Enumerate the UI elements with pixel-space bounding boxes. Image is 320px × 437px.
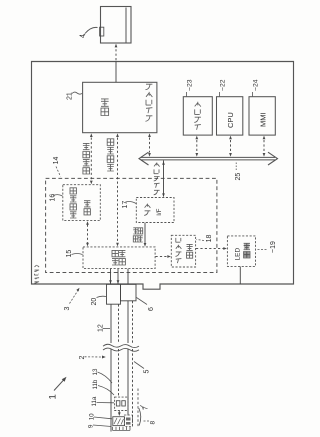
cable line 4 lower [132,349,134,426]
cable line 2 lower [118,349,120,397]
dashed line box21-box15 [117,138,119,243]
svg-text:LED: LED [235,248,242,261]
box 19 LED drive [227,236,255,267]
svg-text:7: 7 [143,406,150,410]
tip box A [113,417,125,426]
svg-text:~24: ~24 [253,79,260,91]
leader 3 [70,290,79,304]
leader 22 [219,92,221,96]
arrow line label 1 [54,379,65,391]
box 17 slave IF [136,198,174,223]
cable line 3 upper [127,301,129,343]
svg-text:I/F: I/F [156,208,163,215]
dashed line bus to table [196,140,198,153]
line outer box to box21 [115,62,117,83]
svg-text:25: 25 [235,173,242,181]
leader 6 [137,298,148,305]
svg-text:CPU: CPU [226,112,235,128]
leader 25 [235,163,237,171]
svg-text:12: 12 [98,324,105,332]
bus line lower [141,159,275,161]
svg-text:3: 3 [64,307,71,311]
box15 text line1 [112,250,118,265]
LED housing box [115,397,128,410]
arrow up into display [115,44,118,48]
tip contact teeth [113,427,131,431]
leader label 21 [72,92,82,94]
svg-text:~22: ~22 [220,79,227,91]
leader 19 [256,249,267,251]
bracket at tip [139,408,141,426]
leader 24 [252,92,254,96]
outer processor box [32,62,294,290]
svg-text:18: 18 [206,235,213,243]
bus right open arrow [268,152,278,165]
cable line 4 upper [132,301,134,343]
bus left open arrow [139,152,149,165]
dashed line bus to CPU [230,140,232,153]
box18 text line2 [187,244,193,258]
connector box 6 [121,284,137,301]
box15 text line2 [119,250,125,265]
line LED box down [118,411,120,415]
svg-text:11a: 11a [91,396,98,406]
leader 17 [126,202,137,204]
svg-text:20: 20 [91,298,98,306]
leader 11b [98,386,114,396]
dashed line box16-box15 [87,225,89,244]
leader 12 [103,328,110,330]
processor label text (vertical) [34,265,39,283]
dashed line bus to MMI [263,140,265,153]
signal text eizo-shingo [107,139,114,171]
box 16 control process [63,185,101,221]
display inner screen line [125,8,127,43]
svg-text:~19: ~19 [270,241,277,253]
box 21 image processor [83,82,157,132]
leader 23 [186,92,188,96]
probe outline dashed right [137,389,139,428]
dashed line display to processor box [115,45,117,62]
dashed line box15-box18 [156,256,168,258]
leader for label 4 [85,27,98,33]
leader 2 [85,356,103,358]
box18 text line1 decoder [176,238,182,263]
svg-text:8: 8 [150,421,157,425]
cable line 1 upper [110,304,112,343]
dashed box 14 probe interface [46,178,217,272]
box19 text kudo [244,243,250,258]
display monitor 4 outline [101,7,132,44]
leader 9 [93,425,112,427]
line box15-connector b [117,269,119,285]
cable break wave lower [103,348,139,351]
leader 7 [140,406,143,410]
leader 11a [97,402,115,404]
line box15-connector a [110,269,112,285]
cable break wave upper [103,344,139,347]
svg-text:14: 14 [53,157,60,165]
box 15 output control [83,247,155,269]
svg-text:5: 5 [144,370,151,374]
hatch in tip box A [114,418,124,425]
cable line 1 lower [110,349,112,432]
box17 text line1 [144,204,150,216]
box 23 table [183,97,212,135]
dashed line box21-box16 [90,138,92,181]
leader 18 [197,240,205,241]
box16 text line2 shori [84,201,90,215]
box 24 MMI [249,97,275,135]
box 18 decoder [171,235,195,267]
svg-text:11b: 11b [92,379,99,389]
box21 text line2 (processor) [146,84,153,121]
svg-text:~23: ~23 [187,79,194,91]
svg-text:9: 9 [88,424,95,428]
signal text sosa-shingo [83,143,90,174]
line bus to box17 [163,161,165,197]
svg-text:4: 4 [80,34,87,38]
dashed line box18-box19 [196,248,224,250]
cable line 2 upper [118,304,120,343]
text col2 between17-15 [138,228,143,242]
box16 text line1 [70,188,76,218]
tip box B [124,415,132,427]
svg-text:10: 10 [89,413,96,420]
svg-text:MMI: MMI [259,112,268,127]
leader 8 [143,420,149,422]
line box17-box15 [144,223,146,243]
svg-text:2: 2 [79,356,86,360]
LED 11a square [116,401,120,406]
leader 20 [97,296,107,297]
line box19 to bottom edge [239,267,241,285]
leader 16 [53,195,63,196]
leader 14 [56,167,61,177]
box21 text line1 (gazo) [101,99,109,116]
svg-text:1: 1 [48,394,59,399]
connector box 20 [107,284,121,304]
leader 10 [94,417,112,419]
line box15-connector c [127,269,129,285]
leader 13 [98,372,113,383]
svg-text:6: 6 [148,307,155,311]
dashed line box21 to bus [149,138,151,153]
status text [154,163,160,195]
table text [194,102,201,130]
cable line 3 lower [127,349,129,416]
text col1 between17-15 [133,228,138,242]
display side tab [100,27,104,36]
LED 11b square [122,401,126,406]
bus line upper [141,156,275,158]
leader 15 [72,254,83,255]
svg-text:15: 15 [66,250,73,258]
leader 5 [134,362,144,369]
box 22 CPU [217,97,243,135]
